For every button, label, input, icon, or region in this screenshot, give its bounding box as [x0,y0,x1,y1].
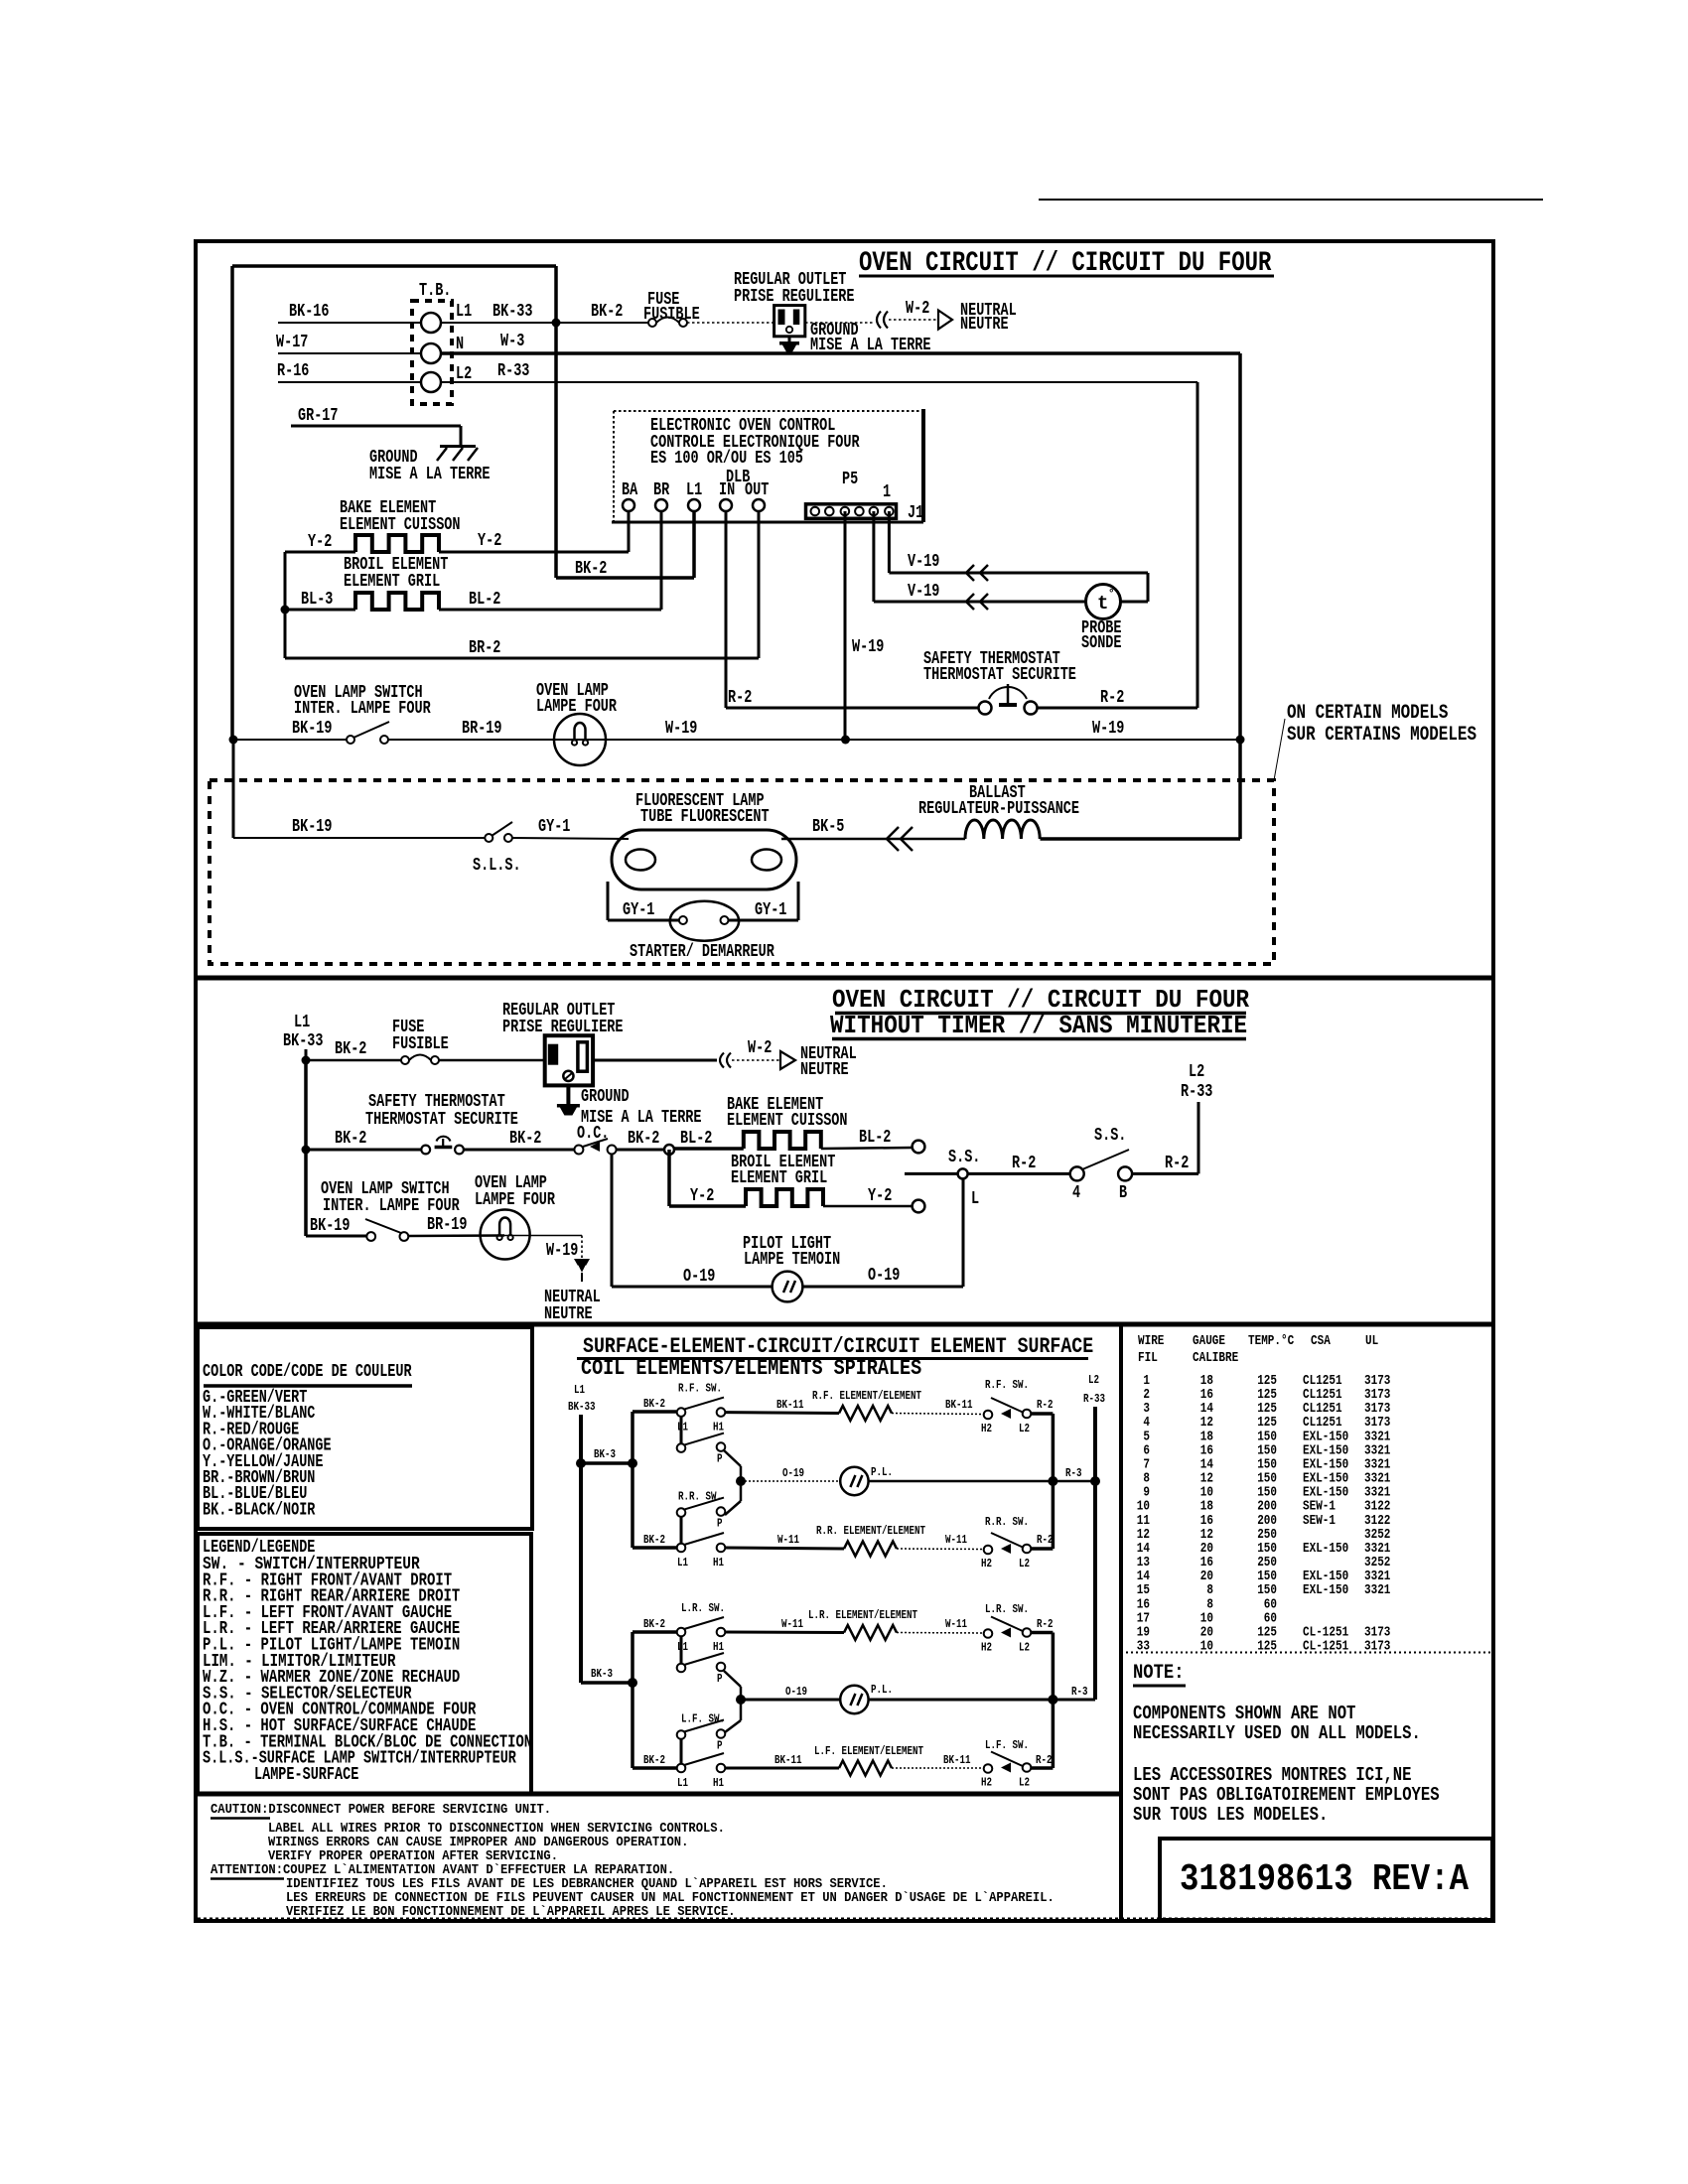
svg-text:ES 100 OR/OU ES 105: ES 100 OR/OU ES 105 [650,449,803,469]
wire W-11 to L.R. SW right [897,1617,983,1633]
wire BR-19 [388,719,580,740]
svg-text:O.C.: O.C. [577,1124,609,1144]
safety thermostat (section 1) [923,649,1076,715]
svg-text:COMPONENTS SHOWN ARE NOT: COMPONENTS SHOWN ARE NOT [1133,1703,1355,1724]
svg-text:LAMPE-SURFACE: LAMPE-SURFACE [254,1765,358,1785]
svg-text:R.R. SW.: R.R. SW. [678,1490,722,1504]
legend box [198,1534,531,1794]
node L2 (section 2) [1181,1062,1212,1102]
svg-text:BK-33: BK-33 [568,1400,596,1414]
pin 1 label [883,482,891,502]
wire BK-2 thermostat to O.C. [464,1129,574,1150]
svg-text:R-2: R-2 [1165,1154,1189,1173]
svg-text:ELEMENT CUISSON: ELEMENT CUISSON [727,1111,848,1131]
svg-text:R-2: R-2 [728,688,752,708]
svg-text:CSA: CSA [1311,1333,1331,1349]
resistor L.F. element [814,1744,923,1776]
svg-text:W-19: W-19 [665,719,697,739]
svg-text:H2: H2 [981,1776,992,1790]
svg-text:NEUTRE: NEUTRE [960,315,1009,335]
svg-text:FUSIBLE: FUSIBLE [392,1034,449,1054]
wire BL-2 bake output [821,1128,912,1149]
svg-text:L2: L2 [1189,1062,1204,1082]
section 3 title [577,1334,1093,1381]
terminal L1 [686,480,702,511]
svg-text:BK-16: BK-16 [289,302,330,322]
terminal BR [653,480,669,511]
svg-text:S.S.: S.S. [1094,1126,1126,1146]
wire W-17 (N input) [276,333,421,353]
svg-text:L.F. SW.: L.F. SW. [985,1738,1029,1752]
safety thermostat (section 2) [365,1092,518,1154]
svg-text:P.L.: P.L. [871,1465,893,1479]
svg-text:SONT PAS OBLIGATOIREMENT EMPLO: SONT PAS OBLIGATOIREMENT EMPLOYES [1133,1784,1440,1806]
svg-text:W-2: W-2 [906,299,929,319]
wire BK-33 [441,302,552,323]
wire BK-19 (lamp line) [233,719,347,740]
svg-text:FUSIBLE: FUSIBLE [643,305,700,325]
svg-text:L1: L1 [574,1383,585,1397]
starter [623,900,787,962]
svg-text:OVEN CIRCUIT // CIRCUIT DU FOU: OVEN CIRCUIT // CIRCUIT DU FOUR [859,248,1272,279]
outlet ground (section 2) [557,1086,702,1129]
svg-text:V-19: V-19 [908,552,939,572]
pin L2 [456,364,472,384]
wire O-19 left [612,1267,773,1287]
wire BK-19 fluorescent [233,740,485,838]
switch L.F. SW. (left) [677,1712,726,1791]
svg-text:WITHOUT TIMER // SANS MINUTERI: WITHOUT TIMER // SANS MINUTERIE [830,1011,1247,1040]
selector common S.S. [905,1148,980,1178]
svg-text:L2: L2 [1088,1373,1099,1387]
broil element (section 2) [731,1153,835,1206]
svg-text:R.R. ELEMENT/ELEMENT: R.R. ELEMENT/ELEMENT [816,1524,925,1538]
svg-text:TUBE FLUORESCENT: TUBE FLUORESCENT [640,807,770,827]
svg-text:J1: J1 [908,503,923,523]
svg-text:COIL ELEMENTS/ELEMENTS SPIRALE: COIL ELEMENTS/ELEMENTS SPIRALES [581,1356,921,1381]
wire R-2 L.F. [1031,1753,1053,1768]
svg-text:WIRE: WIRE [1138,1333,1164,1349]
wire W-19 lamp line [580,719,1240,740]
svg-text:STARTER/ DEMARREUR: STARTER/ DEMARREUR [630,942,774,962]
svg-text:H1: H1 [713,1556,724,1570]
svg-text:BK-11: BK-11 [945,1398,973,1412]
svg-text:SUR TOUS LES MODELES.: SUR TOUS LES MODELES. [1133,1804,1328,1826]
ballast coil [918,783,1079,839]
svg-text:R.F. SW.: R.F. SW. [985,1378,1029,1392]
oven lamp switch (section 2) [310,1179,460,1241]
svg-text:BK-11: BK-11 [943,1753,971,1767]
svg-text:BK-19: BK-19 [292,817,333,837]
svg-text:INTER. LAMPE FOUR: INTER. LAMPE FOUR [323,1196,460,1216]
svg-text:R-33: R-33 [1083,1392,1105,1406]
wire Y-2 broil output [823,1186,912,1206]
svg-text:O-19: O-19 [683,1267,715,1287]
wire R-2 to L2 [1132,1102,1198,1173]
svg-text:EXL-150: EXL-150 [1303,1541,1348,1557]
wire W-11 to R.R. SW right [897,1533,983,1550]
note text english [1133,1703,1421,1744]
svg-text:BL-2: BL-2 [859,1128,891,1148]
wire Y-2 right to BA [439,511,629,552]
svg-text:L.R. SW.: L.R. SW. [985,1602,1029,1616]
svg-text:IN: IN [719,480,735,500]
junction O-19 lower [736,1695,746,1705]
svg-text:W-11: W-11 [945,1533,967,1547]
svg-text:REGULATEUR-PUISSANCE: REGULATEUR-PUISSANCE [918,799,1079,819]
junction BK-3 lower [628,1678,637,1688]
caution text block [211,1802,1055,1920]
svg-text:L1: L1 [677,1421,688,1434]
wire P to pilot (lower) [724,1671,741,1732]
svg-text:L1: L1 [686,480,702,500]
wire BK-2 to fuse [560,302,648,323]
svg-text:LAMPE FOUR: LAMPE FOUR [536,697,617,717]
wire BL-3 [285,590,355,610]
svg-text:Y-2: Y-2 [690,1186,714,1206]
svg-text:H1: H1 [713,1776,724,1790]
svg-text:3173: 3173 [1364,1639,1390,1655]
svg-text:L2: L2 [1019,1776,1030,1790]
svg-text:R-33: R-33 [497,361,529,381]
svg-text:BK-2: BK-2 [335,1129,366,1149]
wire BL-2 to BR [439,511,661,610]
pin N [456,335,464,354]
wire Y-2 broil branch [669,1150,746,1206]
connector W-2 (section 2) [720,1038,780,1068]
wire R-2 IN to thermostat [726,511,979,708]
svg-text:3321: 3321 [1364,1582,1390,1598]
section 1 title OVEN CIRCUIT // CIRCUIT DU FOUR [859,248,1274,279]
svg-text:1: 1 [883,482,891,502]
svg-text:GY-1: GY-1 [755,900,787,920]
svg-text:O-19: O-19 [782,1466,804,1480]
svg-text:L2: L2 [1019,1557,1030,1570]
pin L1 [456,302,472,322]
wire table rows [1137,1373,1391,1655]
junction L1 bus top [302,1056,311,1065]
svg-text:S.L.S.: S.L.S. [473,856,521,876]
svg-text:L1: L1 [294,1013,310,1032]
wire BK-2 to R.F. switch [633,1397,676,1412]
wire P to pilot (upper) [724,1450,741,1515]
wire BK-2 to L.R. switch [633,1617,676,1632]
svg-text:BK-3: BK-3 [594,1447,616,1461]
svg-text:W-19: W-19 [546,1241,578,1261]
wire BK-2 bus lower group [631,1632,634,1768]
wire R-3 lower [869,1685,1095,1700]
wire fuse to outlet (section 2) [439,1059,544,1062]
svg-text:FIL: FIL [1138,1350,1158,1366]
svg-text:BK-2: BK-2 [591,302,623,322]
svg-text:LAMPE TEMOIN: LAMPE TEMOIN [744,1250,840,1270]
svg-text:GY-1: GY-1 [538,817,571,837]
junction lamp line left [229,736,238,745]
regular outlet (oven circuit) [734,270,855,337]
svg-text:Y-2: Y-2 [308,532,332,552]
svg-text:R-2: R-2 [1036,1753,1053,1767]
svg-text:H1: H1 [713,1640,724,1654]
terminal block T.B. [412,281,452,404]
switch R.F. SW. (right) [981,1378,1031,1435]
switch L.F. SW. (right) [981,1738,1031,1790]
resistor R.F. element [812,1389,921,1421]
wire BK-2 to L.F. switch [633,1753,676,1768]
oven lamp branch (section 2) [306,1235,367,1238]
wire GR-17 [291,406,461,446]
svg-text:T.B.: T.B. [419,281,451,301]
svg-text:BR-19: BR-19 [427,1215,468,1235]
wire L.R./L.F. collector [1052,1633,1055,1769]
svg-text:L.R. SW.: L.R. SW. [681,1601,725,1615]
svg-text:S.L.S.-SURFACE LAMP SWITCH/INT: S.L.S.-SURFACE LAMP SWITCH/INTERRUPTEUR [203,1749,516,1769]
wire O-19 upper [741,1466,840,1481]
svg-text:125: 125 [1257,1639,1277,1655]
wire BK-2 to fuse (section 2) [306,1039,401,1060]
svg-text:SEW-1: SEW-1 [1303,1513,1336,1529]
svg-text:NEUTRE: NEUTRE [544,1304,593,1324]
svg-text:R-2: R-2 [1012,1154,1036,1173]
fuse F1 [643,290,700,327]
pilot light P.L. (lower) [840,1683,893,1713]
svg-text:°: ° [1108,589,1115,601]
svg-text:W-17: W-17 [276,333,308,352]
fluorescent lamp tube [612,791,796,889]
wire outlet to neutral (section 2) [593,1059,717,1062]
wire table header [1138,1333,1378,1366]
fuse (section 2) [392,1018,449,1064]
connector W-2 [877,299,938,329]
wire BR-19 (section 2) [408,1215,504,1236]
wire L2 bus (section 3) [1093,1407,1097,1700]
wire BK-3 lower [581,1667,633,1683]
svg-text:P: P [717,1517,723,1531]
wire BK-11 L.F. element [725,1753,839,1768]
junction W-19/J1 [841,736,850,745]
svg-text:GY-1: GY-1 [623,900,655,920]
svg-text:33: 33 [1137,1639,1150,1655]
svg-text:R-2: R-2 [1037,1533,1054,1547]
wire BK-11 to L.F. SW right [892,1753,983,1768]
svg-text:H2: H2 [981,1557,992,1570]
svg-text:ON CERTAIN MODELS: ON CERTAIN MODELS [1287,702,1448,725]
svg-text:R.F. ELEMENT/ELEMENT: R.F. ELEMENT/ELEMENT [812,1389,921,1403]
starter circuit wires [608,882,798,920]
svg-text:P: P [717,1672,723,1686]
svg-text:H2: H2 [981,1422,992,1435]
svg-text:GROUND: GROUND [581,1087,630,1107]
switch R.F. SW. (left) [677,1382,726,1466]
wire L1 bus (section 3) [579,1415,583,1683]
wire W-19 to neutral (section 2) [504,1236,582,1262]
svg-text:BR-2: BR-2 [469,638,500,658]
resistor L.R. element [808,1608,917,1640]
svg-text:BK-2: BK-2 [575,559,607,579]
svg-text:N: N [456,335,464,354]
svg-text:SUR CERTAINS MODELES: SUR CERTAINS MODELES [1287,724,1477,747]
terminal BA [622,480,637,511]
wire O.C. to pilot line [611,1154,614,1287]
wire R-2 L.R. [1031,1617,1054,1633]
junction R-3 lower [1048,1695,1057,1705]
switch L.R. SW. (left) [677,1601,726,1686]
neutral arrow (section 2) [780,1044,857,1080]
svg-text:318198613 REV:A: 318198613 REV:A [1180,1858,1469,1901]
switch O.C. [574,1124,616,1155]
svg-text:R-33: R-33 [1181,1082,1212,1102]
svg-text:Y-2: Y-2 [868,1186,892,1206]
svg-text:BK-33: BK-33 [492,302,533,322]
svg-text:L: L [971,1189,979,1209]
wire BR-2 to OUT [285,511,759,658]
wire BK-11 R.F. element [725,1398,839,1414]
svg-text:TEMP.°C: TEMP.°C [1248,1333,1295,1349]
svg-text:NOTE:: NOTE: [1133,1662,1185,1685]
svg-text:OUT: OUT [745,480,769,500]
svg-text:Y-2: Y-2 [478,531,501,551]
svg-text:BK-19: BK-19 [292,719,333,739]
svg-text:BK-5: BK-5 [812,817,844,837]
wire W-3 neutral run [441,332,1240,839]
color code box [198,1327,532,1529]
wire R-2 thermostat to L2 line [1037,382,1197,708]
bake element (section 1) [340,498,461,552]
wire R-16 (L2 input) [277,361,421,382]
svg-text:R-2: R-2 [1037,1398,1054,1412]
svg-text:W-11: W-11 [777,1533,799,1547]
svg-text:GAUGE: GAUGE [1193,1333,1225,1349]
junction W-19/neutral drop [1236,736,1245,745]
wire selector L leg [963,1178,979,1287]
svg-text:BA: BA [622,480,637,500]
color code list [203,1388,332,1520]
wire R-3 upper [869,1466,1095,1481]
svg-text:SAFETY THERMOSTAT: SAFETY THERMOSTAT [368,1092,505,1112]
svg-text:CALIBRE: CALIBRE [1193,1350,1238,1366]
connector P5 [842,470,858,489]
svg-text:MISE A LA TERRE: MISE A LA TERRE [369,465,491,484]
wire ballast to W line [1041,837,1241,841]
wire BK-11 to R.F. SW right [892,1398,983,1415]
junction bake/broil [664,1145,674,1155]
junction BK-3 upper b [628,1458,637,1468]
wire BK-16 (L1 input) [278,302,421,323]
wire BK-2 bus upper group [631,1412,634,1548]
svg-text:L1: L1 [677,1640,688,1654]
wire V-19 upper [889,511,1148,602]
wire R-2 R.R. [1031,1533,1054,1549]
svg-text:4: 4 [1072,1183,1080,1203]
svg-text:PRISE REGULIERE: PRISE REGULIERE [502,1018,624,1037]
svg-text:H2: H2 [981,1641,992,1655]
note text french [1133,1764,1440,1826]
junction O-19 upper [736,1476,746,1486]
svg-text:CL-1251: CL-1251 [1303,1639,1348,1655]
svg-text:EXL-150: EXL-150 [1303,1582,1348,1598]
wire O-19 lower [741,1685,840,1700]
selector switch S.S. 4-B [1070,1126,1132,1203]
svg-text:PRISE REGULIERE: PRISE REGULIERE [734,287,855,307]
svg-text:BK-2: BK-2 [643,1753,665,1767]
wire R.F./R.R. collector [1052,1414,1055,1549]
wire R-2 to selector switch [968,1154,1070,1173]
svg-text:THERMOSTAT SECURITE: THERMOSTAT SECURITE [923,665,1076,685]
svg-text:BK-2: BK-2 [643,1617,665,1631]
terminal DLB OUT [745,480,769,511]
electronic oven control U1 [612,409,923,522]
wire outlet to neutral [805,322,875,324]
wire R-33 [441,361,1197,382]
terminal BL-2 [913,1141,925,1154]
node L1 (section 3) [568,1383,596,1414]
node L2 (section 3) [1083,1373,1105,1406]
pilot light P.L. (upper) [840,1465,893,1495]
svg-text:BR: BR [653,480,669,500]
neutral arrow down (section 2) [544,1259,601,1324]
svg-text:S.S.: S.S. [948,1148,980,1167]
svg-text:BK-2: BK-2 [628,1129,659,1149]
oven lamp (section 2) [475,1173,555,1260]
svg-text:L1: L1 [677,1556,688,1570]
wire BK-3 upper [581,1447,633,1463]
svg-text:W-2: W-2 [748,1038,772,1058]
svg-text:BL-3: BL-3 [301,590,333,610]
regular outlet (section 2) [502,1001,624,1085]
outlet ground symbol [779,321,931,355]
switch R.R. SW. (left) [677,1490,726,1570]
wire O-19 right [802,1266,963,1287]
svg-text:L.F. ELEMENT/ELEMENT: L.F. ELEMENT/ELEMENT [814,1744,923,1758]
svg-text:ELEMENT GRIL: ELEMENT GRIL [344,572,440,592]
oven lamp (section 1) [536,681,617,765]
wire fuse to outlet [687,322,774,324]
note heading [1133,1662,1186,1686]
wire L1 bus (section 2) [304,1060,308,1236]
svg-text:LAMPE FOUR: LAMPE FOUR [475,1190,555,1210]
svg-text:L.F. SW.: L.F. SW. [681,1712,725,1726]
wire BK-5 to ballast [781,817,965,851]
svg-text:W-19: W-19 [1092,719,1124,739]
node L1 (section 2) [283,1013,324,1060]
svg-text:ELEMENT CUISSON: ELEMENT CUISSON [340,515,461,535]
oven lamp switch (section 1) [294,683,431,744]
wire BL-2 to bake [674,1129,744,1149]
switch L.R. SW. (right) [981,1602,1031,1655]
label DLB [726,468,750,487]
svg-text:VERIFIEZ LE BON FONCTIONNEMENT: VERIFIEZ LE BON FONCTIONNEMENT DE L`APPA… [286,1904,736,1920]
svg-text:P.L.: P.L. [871,1683,893,1697]
svg-text:R.R. SW.: R.R. SW. [985,1515,1029,1529]
legend list [203,1538,532,1785]
junction R-3 upper b [1090,1476,1100,1486]
svg-text:SONDE: SONDE [1081,633,1122,653]
svg-text:L.R. ELEMENT/ELEMENT: L.R. ELEMENT/ELEMENT [808,1608,917,1622]
svg-text:V-19: V-19 [908,582,939,602]
svg-text:BL-2: BL-2 [680,1129,712,1149]
svg-text:R-3: R-3 [1065,1466,1082,1480]
dashed box ON CERTAIN MODELS [210,702,1477,964]
svg-text:BK-19: BK-19 [310,1216,351,1236]
section 2 title [830,985,1249,1040]
svg-text:BK-11: BK-11 [774,1753,802,1767]
wire V-19 lower [874,511,1085,610]
wire BK-2 loop L1 terminal [232,266,694,740]
svg-text:COLOR CODE/CODE DE COULEUR: COLOR CODE/CODE DE COULEUR [203,1362,412,1382]
svg-text:W-19: W-19 [852,637,884,657]
svg-text:L1: L1 [677,1776,688,1790]
svg-text:P: P [717,1452,723,1466]
svg-text:NECESSARILY USED ON ALL MODELS: NECESSARILY USED ON ALL MODELS. [1133,1722,1421,1744]
